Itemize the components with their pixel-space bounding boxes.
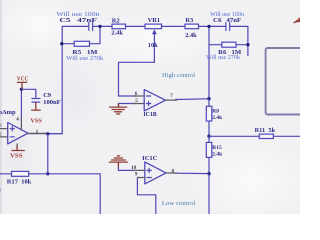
- resistor R15: [208, 136, 210, 214]
- svg-text:10k: 10k: [148, 42, 158, 49]
- node: R5 left junction: [60, 42, 63, 45]
- potentiometer VR1 body: [145, 24, 162, 29]
- node: opamp output junction: [46, 132, 49, 135]
- svg-text:VR1: VR1: [148, 17, 160, 24]
- svg-text:IC1B: IC1B: [143, 111, 157, 118]
- connector block (big box, cropped right): [266, 48, 306, 115]
- svg-text:8: 8: [172, 169, 175, 175]
- svg-text:100nF: 100nF: [43, 99, 61, 106]
- power VSS below opamp: [16, 144, 18, 147]
- svg-text:4: 4: [16, 116, 19, 122]
- pin lead 8 (gray): [166, 172, 177, 174]
- svg-text:R15: R15: [212, 145, 222, 151]
- svg-text:C9: C9: [43, 92, 51, 99]
- svg-text:R8: R8: [212, 109, 219, 115]
- wire: IC1B pin 5 lead: [119, 104, 137, 106]
- wire: C5 block outline left vertical down to opamp output: [28, 26, 100, 133]
- wire: R3 to C6 block: [199, 25, 210, 27]
- wire: opamp input stubs: [0, 129, 8, 137]
- pin lead 4 (gray): [20, 119, 22, 131]
- svg-text:9: 9: [135, 171, 138, 177]
- svg-text:Will use 270k: Will use 270k: [66, 56, 103, 62]
- wire: main top bus from C5 block to R2: [100, 25, 112, 27]
- svg-text:2.4k: 2.4k: [212, 152, 223, 158]
- wire: VR1 wiper S-path to IC1B pin 6: [119, 62, 155, 96]
- node: C5/R2 junction: [98, 25, 101, 28]
- potentiometer VR1 wiper arrow: [153, 34, 155, 63]
- svg-text:2.4k: 2.4k: [212, 115, 223, 121]
- svg-text:High control: High control: [162, 72, 195, 79]
- op-amp IC1C: [145, 162, 166, 184]
- op-amp IC1B: [144, 90, 165, 111]
- node: VCC junction: [20, 88, 23, 91]
- resistor R8: [208, 99, 210, 137]
- svg-text:2.4k: 2.4k: [111, 30, 123, 37]
- wire: R6 branch: [209, 44, 248, 46]
- node: R3/C6 junction: [207, 25, 210, 28]
- svg-text:R11 5k: R11 5k: [255, 127, 276, 134]
- wire: R17 bus: [0, 174, 100, 214]
- svg-text:VSS: VSS: [10, 154, 23, 160]
- pin lead 1 (gray): [28, 132, 47, 134]
- capacitor C5: [89, 23, 93, 31]
- svg-text:C5 47nF: C5 47nF: [59, 17, 97, 24]
- svg-text:1: 1: [36, 129, 39, 135]
- wire: C6 block top path: [209, 26, 248, 44]
- pin lead 9 (gray): [138, 177, 145, 179]
- wire: IC1C output pin8: [176, 172, 210, 174]
- pin lead 5 (gray): [134, 103, 145, 105]
- svg-text:7: 7: [170, 93, 173, 99]
- svg-text:Will use 270k: Will use 270k: [206, 55, 240, 61]
- svg-text:10: 10: [131, 165, 137, 171]
- wire: stub below R6 right node: [247, 45, 249, 56]
- resistor R3: [185, 24, 199, 29]
- svg-text:VCC: VCC: [17, 76, 29, 82]
- svg-text:VSS: VSS: [30, 118, 42, 124]
- wire: opamp output to C5 branch corner: [46, 133, 63, 135]
- svg-text:R5 1M: R5 1M: [72, 49, 97, 56]
- wire: R2 to VR1: [126, 25, 146, 27]
- power VCC symbol: [21, 83, 23, 89]
- wire: R11 lead: [209, 135, 300, 137]
- svg-text:R17 10k: R17 10k: [7, 178, 32, 185]
- node: IC1B output junction: [207, 97, 210, 100]
- wire: R5 branch: [62, 26, 100, 43]
- ground above IC1C pin10: [109, 156, 127, 167]
- svg-text:2.4k: 2.4k: [185, 32, 197, 39]
- svg-text:C6 47nF: C6 47nF: [213, 17, 241, 24]
- capacitor C6: [226, 23, 230, 31]
- resistor R17: [12, 171, 29, 176]
- wire: VR1 to R3: [162, 25, 186, 27]
- node: R17 bus junction: [46, 172, 49, 175]
- svg-text:5: 5: [135, 98, 138, 104]
- svg-text:IC1C: IC1C: [142, 155, 158, 162]
- resistor R5: [74, 41, 89, 46]
- pin lead 7 (gray): [166, 99, 177, 101]
- svg-text:R3: R3: [185, 17, 193, 24]
- wire: C6 left vertical down to IC1B output node: [208, 26, 210, 98]
- power VCC rail: [20, 89, 22, 120]
- ground below IC1B pin5: [110, 104, 127, 115]
- power VSS below C9: [35, 103, 37, 110]
- wire: VCC to C9: [21, 89, 35, 98]
- wire: junction down to R17 bus: [47, 134, 49, 174]
- svg-text:R2: R2: [112, 17, 120, 24]
- power flag top-right (cropped): [294, 17, 301, 23]
- op-amp U1 OpAmp (left, cropped): [8, 123, 28, 144]
- svg-text:OpAmp: OpAmp: [0, 109, 16, 116]
- svg-text:6: 6: [135, 91, 138, 97]
- resistor R2: [112, 24, 126, 29]
- capacitor C9: [32, 99, 40, 103]
- pin lead 10 (gray): [133, 169, 145, 171]
- node: IC1C output junction: [207, 172, 210, 175]
- pin lead 6 (gray): [134, 95, 145, 97]
- resistor R6: [222, 42, 236, 47]
- resistor R11: [259, 134, 273, 138]
- wire: IC1C pin10 lead: [118, 166, 135, 170]
- wire: IC1B output pin7 to right column: [176, 98, 210, 101]
- wire: IC1C pin9 feedback path exiting bottom: [137, 178, 155, 215]
- svg-text:Low control: Low control: [162, 200, 196, 207]
- node: R8/R15/R11 junction: [207, 135, 210, 138]
- node: R6 right junction: [246, 43, 249, 46]
